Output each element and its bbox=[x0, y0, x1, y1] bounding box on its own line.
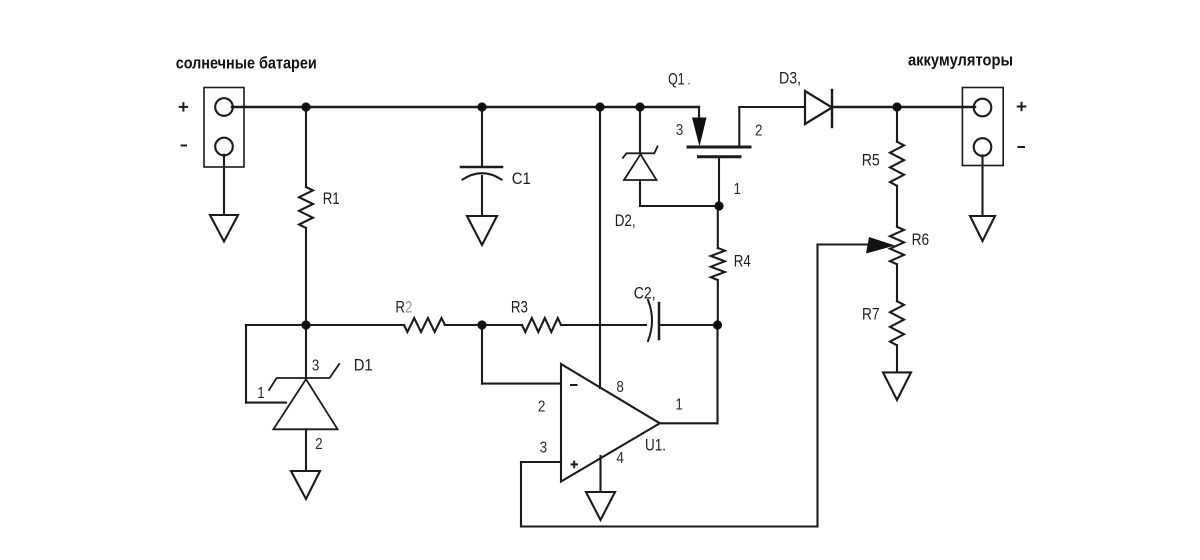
svg-text:1: 1 bbox=[257, 385, 265, 402]
svg-text:C1: C1 bbox=[512, 169, 531, 188]
svg-text:3: 3 bbox=[540, 440, 548, 457]
svg-text:C2,: C2, bbox=[634, 283, 656, 302]
svg-text:3: 3 bbox=[676, 122, 684, 139]
svg-text:3: 3 bbox=[312, 358, 320, 375]
svg-text:2: 2 bbox=[755, 123, 763, 140]
svg-text:D2,: D2, bbox=[615, 211, 636, 230]
svg-text:8: 8 bbox=[616, 379, 624, 396]
svg-text:R7: R7 bbox=[862, 305, 880, 324]
svg-text:1: 1 bbox=[675, 397, 683, 414]
svg-text:1: 1 bbox=[734, 181, 742, 198]
svg-text:R6: R6 bbox=[912, 230, 930, 249]
svg-text:солнечные батареи: солнечные батареи bbox=[176, 54, 317, 73]
svg-text:U1.: U1. bbox=[645, 436, 666, 455]
svg-text:аккумуляторы: аккумуляторы bbox=[908, 51, 1013, 70]
svg-text:R5: R5 bbox=[862, 151, 880, 170]
svg-text:.: . bbox=[687, 70, 692, 89]
svg-text:4: 4 bbox=[616, 450, 624, 467]
svg-text:D3,: D3, bbox=[779, 69, 801, 88]
svg-text:R3: R3 bbox=[511, 297, 528, 316]
svg-text:D1: D1 bbox=[354, 356, 373, 375]
svg-text:R2: R2 bbox=[395, 297, 412, 316]
svg-text:2: 2 bbox=[315, 436, 323, 453]
svg-text:2: 2 bbox=[538, 398, 546, 415]
svg-text:Q1: Q1 bbox=[668, 70, 685, 89]
svg-text:R4: R4 bbox=[734, 252, 751, 271]
svg-text:R1: R1 bbox=[323, 189, 340, 208]
